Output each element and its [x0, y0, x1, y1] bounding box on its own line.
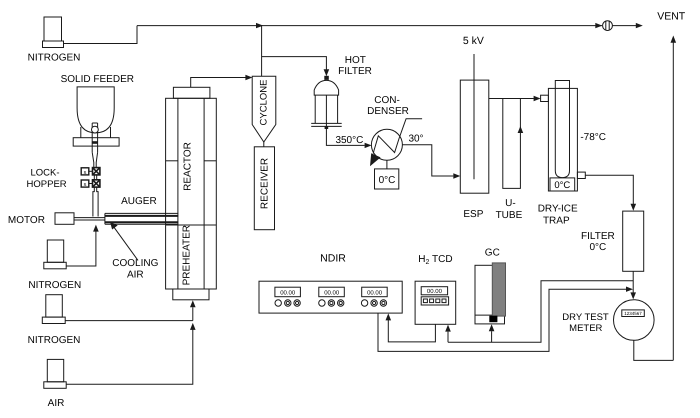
wire: cyclone bottom to receiver	[263, 142, 265, 147]
valve V1 actuator box	[81, 168, 89, 175]
feeder metering ball	[92, 126, 99, 133]
condenser 0°C box	[375, 169, 399, 189]
svg-text:AIR: AIR	[127, 270, 144, 281]
GC oven box	[475, 265, 505, 324]
svg-text:00.00: 00.00	[280, 289, 296, 296]
wire: NDIR outlet return to dry test meter	[378, 289, 627, 351]
wire: nitrogen N1 to top header	[64, 26, 138, 44]
svg-text:350°C: 350°C	[335, 135, 363, 146]
nitrogen cylinder N1 (top left)	[28, 17, 81, 64]
svg-text:LOCK-: LOCK-	[30, 168, 59, 179]
svg-text:NITROGEN: NITROGEN	[28, 280, 81, 291]
solid feeder hopper	[61, 74, 134, 133]
cyclone	[252, 76, 276, 142]
svg-text:PREHEATER: PREHEATER	[182, 225, 193, 285]
preheater feed arrow	[190, 300, 196, 307]
svg-text:CYCLONE: CYCLONE	[259, 80, 270, 126]
TCD button panel	[421, 297, 448, 305]
GC column module (gray)	[492, 263, 505, 316]
svg-text:NITROGEN: NITROGEN	[28, 335, 81, 346]
coolant inlet line	[399, 119, 422, 138]
feeder support legs	[80, 127, 82, 138]
air cylinder	[44, 359, 66, 408]
NDIR display 3	[362, 287, 388, 297]
wire: condenser drain to 0°C box	[386, 160, 388, 169]
wire: N2 purge to auger inlet	[66, 232, 96, 267]
receiver	[254, 147, 274, 230]
reactor/preheater outer shell	[166, 98, 217, 289]
feeder mounting bar	[73, 138, 119, 146]
dry-ice trap outer vessel	[548, 88, 577, 191]
svg-text:HOT: HOT	[345, 55, 366, 66]
wire: meter outlet to vent riser	[634, 340, 674, 360]
svg-text:AIR: AIR	[48, 398, 65, 409]
svg-text:GC: GC	[485, 248, 500, 259]
arrow into H2 TCD	[445, 325, 451, 332]
feeder drop tube	[91, 123, 93, 152]
hot filter vessel	[311, 76, 342, 129]
NDIR display 1	[275, 287, 301, 297]
svg-text:NDIR: NDIR	[320, 253, 346, 265]
U-tube	[503, 99, 521, 189]
NDIR analyzer chassis	[259, 281, 402, 313]
svg-text:REACTOR: REACTOR	[183, 142, 194, 191]
svg-text:0°C: 0°C	[590, 242, 607, 253]
svg-text:HOPPER: HOPPER	[27, 179, 67, 190]
svg-text:s: s	[84, 170, 87, 176]
condenser heat exchanger circle	[371, 129, 402, 160]
svg-text:00.00: 00.00	[324, 289, 340, 296]
svg-text:H2 TCD: H2 TCD	[418, 254, 452, 266]
wire: H2 TCD outlet to NDIR inlet	[388, 320, 435, 342]
motor shaft	[74, 217, 105, 219]
rotameter/check symbol on vent line	[595, 23, 602, 28]
wire: branch to hot filter	[262, 57, 327, 70]
svg-text:NITROGEN: NITROGEN	[28, 53, 81, 64]
svg-text:-78°C: -78°C	[580, 132, 606, 143]
svg-text:0°C: 0°C	[379, 175, 396, 186]
NDIR display 2	[319, 287, 345, 297]
wire: vent valve to outlet arrow	[612, 25, 636, 27]
cooling air pointer arrow	[114, 227, 139, 261]
motor M1	[55, 213, 74, 225]
NDIR knobs group 3	[361, 300, 386, 306]
svg-text:TRAP: TRAP	[543, 215, 570, 226]
GC detector (black)	[489, 316, 497, 323]
svg-text:COOLING: COOLING	[112, 258, 158, 269]
svg-text:00.00: 00.00	[427, 288, 443, 295]
wire: sample take-off from meter inlet to GC/TCD bus	[448, 281, 633, 343]
wire: air line joins N3 junction	[66, 330, 193, 385]
filter vessel	[623, 211, 644, 271]
dry-ice trap inlet stub	[541, 95, 549, 101]
TCD display	[421, 287, 447, 295]
nitrogen cylinder N2 (purge)	[28, 240, 81, 291]
svg-text:DENSER: DENSER	[367, 106, 409, 117]
condenser coil zigzag	[374, 136, 399, 153]
auger tube	[105, 213, 178, 224]
ESP vessel	[460, 80, 489, 193]
arrow on top header before cyclone junction	[256, 23, 263, 28]
reactor outlet pipe to cyclone	[191, 78, 246, 88]
svg-text:RECEIVER: RECEIVER	[260, 158, 271, 209]
tube between valves	[93, 175, 95, 180]
wire: ESP to dry-ice trap	[489, 98, 534, 100]
feeder taper	[92, 152, 97, 167]
dry-ice trap inner tube	[555, 81, 569, 178]
wire: top header line to vent valve	[137, 25, 602, 27]
svg-text:U-: U-	[505, 198, 516, 209]
reactor top cap	[173, 87, 210, 98]
nitrogen cylinder N3 (fluidizing)	[28, 295, 81, 346]
reactor/preheater division line	[166, 224, 217, 226]
svg-text:1234567: 1234567	[624, 311, 642, 316]
svg-text:DRY TEST: DRY TEST	[562, 312, 609, 323]
heater jacket tick	[166, 160, 178, 162]
arrow into GC	[489, 324, 495, 331]
lock-hopper valve V1	[93, 168, 100, 175]
trap outlet stub	[577, 172, 585, 178]
svg-text:METER: METER	[569, 323, 602, 334]
NDIR knobs group 1	[275, 300, 300, 306]
drop tube below valves	[93, 187, 98, 216]
valve V2 actuator box	[81, 180, 89, 187]
wire: N3 to preheater feed line	[65, 320, 193, 322]
wire: filter to dry test meter	[632, 271, 634, 293]
preheater bottom cap	[173, 289, 209, 300]
svg-text:FILTER: FILTER	[338, 66, 372, 77]
dry test meter	[614, 300, 655, 341]
coolant outlet arrow	[370, 153, 381, 166]
svg-text:ESP: ESP	[463, 209, 483, 220]
H2 TCD analyzer box	[415, 281, 456, 324]
wire: trap to filter	[585, 175, 633, 204]
feeder tube coupling (dark band)	[92, 141, 98, 144]
ESP electrode	[473, 54, 475, 179]
lock-hopper valve V2	[93, 180, 100, 187]
svg-text:VENT: VENT	[657, 11, 686, 23]
vent riser from dry test meter	[672, 42, 674, 360]
svg-text:s: s	[84, 182, 87, 188]
NDIR knobs group 2	[319, 300, 344, 306]
svg-text:30°: 30°	[408, 134, 423, 145]
wire: cyclone overhead riser	[261, 26, 263, 77]
svg-text:TUBE: TUBE	[496, 210, 523, 221]
svg-text:00.00: 00.00	[367, 289, 383, 296]
wire: condenser outlet to ESP	[402, 145, 453, 176]
wire: hot filter outlet to condenser	[326, 126, 364, 145]
svg-text:0°C: 0°C	[554, 180, 570, 191]
reactor inner tube walls	[177, 98, 179, 289]
svg-text:SOLID FEEDER: SOLID FEEDER	[61, 74, 134, 85]
svg-text:FILTER: FILTER	[581, 231, 615, 242]
svg-text:AUGER: AUGER	[121, 196, 157, 207]
svg-text:DRY-ICE: DRY-ICE	[538, 203, 578, 214]
trap 0°C box	[550, 178, 575, 191]
svg-text:CON-: CON-	[374, 95, 400, 106]
svg-text:MOTOR: MOTOR	[8, 215, 45, 226]
svg-text:5 kV: 5 kV	[463, 35, 484, 47]
